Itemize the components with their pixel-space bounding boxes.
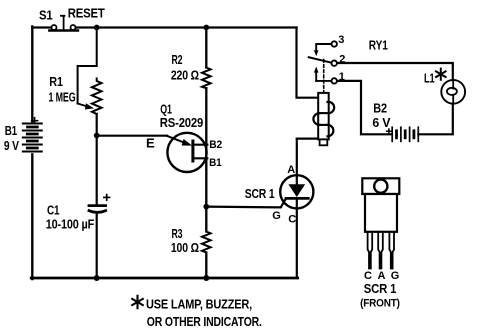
package leg A	[378, 232, 383, 269]
svg-text:A: A	[287, 164, 295, 176]
resistor R3 zigzag	[202, 232, 211, 253]
lamp L1	[441, 80, 465, 104]
R1 wiper arrow	[78, 104, 87, 107]
wire left rail upper	[31, 26, 33, 121]
svg-text:R3: R3	[172, 226, 183, 241]
wire top rail left segment	[32, 26, 51, 28]
svg-text:B2: B2	[373, 100, 387, 115]
svg-text:10-100 µF: 10-100 µF	[46, 216, 95, 231]
wire top rail right segment	[76, 26, 297, 28]
wire C1 bottom to bottom rail	[96, 213, 98, 278]
svg-text:E: E	[146, 136, 155, 151]
svg-text:1: 1	[339, 71, 345, 83]
resistor R2 zigzag	[202, 68, 211, 89]
relay coil loops	[328, 102, 335, 113]
SCR 1 circle	[280, 175, 313, 208]
SCR package TO-220 front view	[362, 178, 399, 268]
svg-text:100 Ω: 100 Ω	[171, 240, 199, 255]
transistor Q1 base bar	[191, 141, 194, 161]
wire gate from junction to SCR	[206, 198, 286, 207]
wire right column from top rail down to relay coil	[297, 28, 319, 98]
transistor Q1 circle	[167, 133, 206, 172]
svg-text:RS-2029: RS-2029	[160, 115, 203, 130]
battery B1	[23, 118, 42, 152]
svg-text:SCR 1: SCR 1	[364, 281, 397, 296]
relay RY1 coil body	[313, 93, 334, 145]
wire terminal 2 to lamp	[337, 63, 453, 80]
package leg C	[368, 232, 373, 269]
node: R1 / C1 / emitter junction	[94, 133, 100, 139]
relay contact blade	[309, 57, 332, 63]
node: gate junction	[203, 204, 209, 210]
node: R3 on bottom rail	[203, 275, 209, 281]
wire R1 bottom to emitter junction and C1	[96, 114, 98, 205]
package leg G	[389, 232, 394, 269]
svg-text:1 MEG: 1 MEG	[49, 89, 76, 104]
node: S1 / R1 junction on top rail	[94, 25, 100, 31]
switch S1	[49, 16, 78, 31]
Q1 B1 lead	[193, 157, 207, 159]
svg-text:L1: L1	[424, 71, 435, 86]
L1 asterisk mark	[436, 69, 446, 80]
wire SCR cathode down to bottom rail	[296, 198, 298, 278]
Q1 B2 lead	[193, 144, 207, 146]
resistor R1 (1 MEG rheostat zigzag)	[92, 79, 102, 115]
wire rail between R2 and R3	[205, 88, 207, 231]
SCR 1 triangle	[288, 184, 305, 197]
svg-text:C: C	[288, 214, 296, 226]
svg-text:RESET: RESET	[68, 6, 105, 21]
svg-text:C1: C1	[47, 202, 59, 217]
svg-text:B1: B1	[209, 157, 221, 169]
wire R3 bottom to bottom rail	[205, 253, 207, 279]
svg-text:9 V: 9 V	[4, 138, 19, 153]
wire bottom rail	[31, 277, 298, 280]
node: C1 on bottom rail	[94, 275, 100, 281]
SCR 1 cathode bar	[286, 197, 308, 200]
node: R2 junction on top rail	[203, 25, 209, 31]
svg-text:2: 2	[339, 54, 345, 66]
wire relay coil bottom-left link	[297, 138, 319, 140]
relay contact terminal 3	[314, 41, 337, 56]
capacitor C1 plates	[89, 195, 110, 213]
wire terminal 1 to battery B2	[337, 81, 391, 134]
svg-text:USE LAMP, BUZZER,: USE LAMP, BUZZER,	[146, 296, 252, 311]
footnote asterisk	[132, 296, 143, 308]
svg-text:(FRONT): (FRONT)	[360, 298, 400, 310]
svg-text:SCR 1: SCR 1	[245, 186, 275, 201]
wire R2 rail top	[205, 28, 207, 68]
svg-text:RY1: RY1	[369, 37, 388, 52]
relay contact terminal 2	[332, 61, 337, 66]
svg-text:220 Ω: 220 Ω	[171, 67, 199, 82]
svg-text:G: G	[272, 210, 280, 222]
relay actuation dashed line	[323, 60, 325, 93]
svg-text:R1: R1	[49, 74, 63, 89]
svg-text:R2: R2	[172, 52, 183, 67]
Q1 emitter arrow	[167, 136, 186, 143]
svg-text:6 V: 6 V	[372, 115, 390, 130]
relay up arrow	[314, 67, 319, 81]
svg-text:3: 3	[338, 34, 344, 46]
wire left rail lower	[31, 154, 33, 279]
battery B2	[387, 127, 419, 141]
svg-text:OR OTHER INDICATOR.: OR OTHER INDICATOR.	[147, 314, 262, 329]
wire SCR anode	[296, 139, 298, 185]
svg-text:B1: B1	[5, 123, 17, 138]
relay contact terminal 1	[316, 78, 337, 83]
wire battery B2 to lamp bottom	[418, 104, 453, 135]
wire emitter from junction to Q1	[97, 135, 167, 137]
wire from top rail down to R1 wiper (with left jog)	[78, 28, 97, 104]
svg-text:S1: S1	[39, 7, 53, 22]
svg-text:B2: B2	[209, 139, 222, 151]
